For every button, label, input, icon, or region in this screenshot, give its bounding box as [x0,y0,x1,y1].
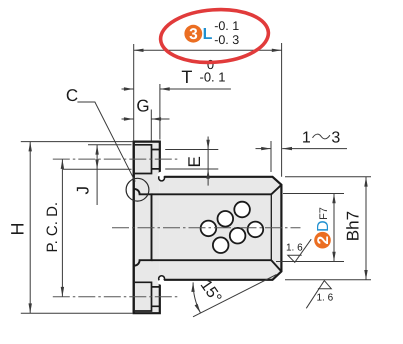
relief notch top [158,172,165,179]
bore end edge [270,194,272,260]
body (sleeve) outline [160,177,282,280]
svg-text:1: 1 [302,129,311,146]
svg-text:C: C [66,86,78,105]
counterbore top screw hole [135,145,160,174]
graphite plug ball 5 [248,222,264,238]
ext line Bh7 top [285,176,371,178]
dimension line L [134,49,282,51]
screw hole centerline bottom [53,296,178,298]
graphite plug ball 3 [234,202,250,218]
svg-text:1. 6: 1. 6 [317,293,334,304]
svg-text:P. C. D.: P. C. D. [44,202,61,253]
graphite plug ball 1 [201,221,217,237]
flange back face edge [133,142,135,314]
svg-text:-0. 1: -0. 1 [200,70,226,85]
detail circle C [126,178,149,201]
counterbore bottom screw hole [135,282,160,311]
ext line Bh7 bottom [285,279,371,281]
svg-text:3: 3 [189,26,198,43]
svg-text:F7: F7 [318,207,330,220]
ext line L left [133,44,135,142]
svg-text:-0. 1: -0. 1 [214,19,239,33]
callout 2 circle [314,232,331,249]
surface finish symbol bore [288,239,311,262]
svg-text:-0. 3: -0. 3 [214,33,239,47]
relief notch bottom [158,278,165,285]
dimension line G [122,118,134,120]
svg-text:J: J [74,186,93,195]
dimension line Bh7 [365,177,367,280]
ext line L right / body right face [281,43,283,177]
surface finish symbol bottom [306,281,331,309]
svg-text:G: G [136,97,149,116]
ext line J bottom [63,168,132,170]
dimension line P.C.D. [61,159,63,297]
dimension line 1~3 [256,148,272,150]
bore end taper top [271,185,281,195]
svg-text:Bh7: Bh7 [344,211,363,241]
svg-text:1. 6: 1. 6 [286,243,303,254]
ext line D F7 top [283,193,344,195]
dimension line J [96,145,98,205]
screw hole centerline top [53,158,178,160]
leader C [77,102,135,182]
ext line J top [88,144,132,146]
svg-text:2: 2 [315,236,332,245]
svg-text:D: D [315,220,332,232]
graphite plug ball 4 [230,228,246,244]
ext line T right [159,84,161,140]
angle 15 deg arc [193,282,200,313]
svg-text:H: H [8,223,28,236]
bore inner relief edges with C fillet [134,189,151,266]
flange ring section [134,142,160,314]
dimension line E [207,137,209,186]
ext line H top [21,141,133,143]
ext line D F7 bottom [276,261,344,263]
ext line G right [150,110,152,141]
graphite plug ball 6 [213,237,229,253]
dimension line T [122,88,134,90]
bore end taper bottom [271,260,281,271]
bore top line [152,193,272,195]
svg-text:L: L [203,26,213,43]
angle 15 deg slanted line [193,275,277,317]
main centerline [112,227,301,229]
graphite plug ball 2 [218,211,234,227]
ext line H bottom [21,312,133,314]
callout 3 circle [184,25,202,43]
svg-text:T: T [181,67,192,87]
svg-text:3: 3 [331,129,340,146]
ext lines E [165,149,218,151]
dimension line H [29,142,31,314]
dimension line D F7 [333,194,335,262]
svg-text:E: E [185,156,204,167]
bore bottom line [152,259,272,261]
red highlight ellipse [159,6,270,66]
ext line 1~3 left [270,141,272,172]
